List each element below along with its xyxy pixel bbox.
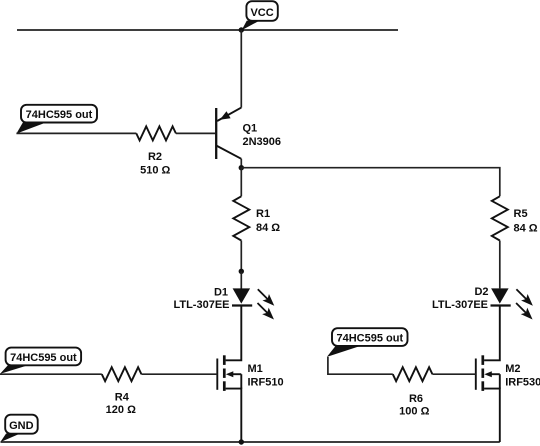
svg-text:510 Ω: 510 Ω	[140, 164, 170, 176]
M1 channel bar (source segment)	[223, 381, 226, 391]
GND net flag pointer	[0, 434, 19, 443]
LED D1 (LTL-307EE)	[232, 286, 278, 323]
svg-text:M2: M2	[505, 363, 520, 375]
junction: node above D1	[239, 269, 244, 274]
net flag box: 74HC595 out (middle)	[332, 328, 408, 346]
net flag pointer: 74HC595 out (left, to R2)	[16, 121, 47, 133]
svg-text:M1: M1	[248, 363, 263, 375]
wire: node to D1 anode	[240, 271, 242, 288]
M2 channel bar (body segment)	[481, 369, 484, 378]
M1 drain wire (from D1 cathode)	[226, 306, 242, 361]
svg-text:IRF530: IRF530	[505, 376, 540, 388]
net flag pointer: 74HC595 out (bottom left, to R4)	[0, 364, 30, 374]
svg-text:GND: GND	[9, 420, 34, 432]
wire: VCC rail down to Q1 emitter	[240, 30, 242, 108]
svg-text:LTL-307EE: LTL-307EE	[173, 299, 229, 311]
Q1 emitter diagonal	[217, 108, 241, 121]
svg-text:100 Ω: 100 Ω	[399, 406, 429, 418]
M1 body line	[229, 373, 241, 375]
svg-text:R6: R6	[409, 393, 423, 405]
M2 channel bar (source segment)	[481, 381, 484, 391]
svg-text:74HC595 out: 74HC595 out	[336, 333, 403, 345]
net flag box: 74HC595 out (bottom left)	[6, 348, 82, 366]
svg-text:R4: R4	[115, 391, 130, 403]
M2 channel bar (drain segment)	[481, 355, 484, 365]
junction: VCC rail / Q1 emitter	[239, 27, 244, 32]
ground rail (bottom horizontal net)	[1, 441, 500, 443]
LED D2 (LTL-307EE)	[491, 286, 537, 323]
M2 drain wire (from D2 cathode)	[484, 306, 500, 361]
D1 cathode bar	[232, 304, 252, 306]
Q1 collector diagonal	[216, 146, 241, 159]
M2 body arrow	[484, 371, 492, 377]
wire: 74HC595 out to R4	[0, 373, 102, 375]
svg-text:R1: R1	[256, 208, 270, 220]
Q1 base bar	[215, 108, 217, 159]
M1 body arrow	[226, 371, 234, 377]
M2 body-source tie	[499, 374, 501, 388]
D1 anode triangle	[233, 288, 251, 303]
svg-text:D1: D1	[214, 286, 228, 298]
M1 body-source tie	[240, 374, 242, 388]
GND net flag box	[5, 415, 38, 434]
Q1 emitter arrow (PNP, points to base)	[220, 111, 231, 120]
net flag pointer: 74HC595 out (middle, to R6)	[327, 346, 359, 357]
wire: R1 to D1 node	[240, 241, 242, 272]
M2 source wire	[484, 389, 500, 442]
resistor R1 (zigzag)	[233, 196, 249, 240]
svg-text:Q1: Q1	[243, 123, 258, 135]
transistor Q1 (PNP 2N3906)	[216, 108, 241, 159]
wire: Q1 collector to node	[240, 159, 242, 168]
wire: collector node down to R1	[240, 168, 242, 197]
net flag box: 74HC595 out (left)	[21, 105, 97, 123]
VCC net flag pointer	[242, 21, 260, 31]
svg-text:74HC595 out: 74HC595 out	[10, 352, 77, 364]
resistor R5 (zigzag)	[492, 196, 508, 240]
svg-text:84 Ω: 84 Ω	[514, 223, 538, 235]
VCC net flag box	[246, 1, 277, 21]
MOSFET M1 (IRF510)	[217, 306, 241, 443]
D2 light arrow 2	[513, 300, 536, 323]
svg-text:VCC: VCC	[250, 7, 273, 19]
D1 light arrow 1	[255, 286, 278, 309]
resistor R2 (zigzag)	[136, 126, 176, 140]
power rail VCC (top horizontal net)	[17, 29, 398, 31]
svg-text:120 Ω: 120 Ω	[106, 404, 136, 416]
svg-text:R2: R2	[148, 151, 162, 163]
D1 light arrow 2	[254, 300, 277, 323]
junction: collector node	[239, 165, 244, 170]
svg-text:74HC595 out: 74HC595 out	[26, 109, 93, 121]
M1 source wire	[226, 389, 242, 442]
D2 light arrow 1	[513, 286, 536, 309]
wire: R6 to M2 gate	[432, 373, 475, 375]
svg-text:LTL-307EE: LTL-307EE	[432, 299, 488, 311]
svg-text:84 Ω: 84 Ω	[256, 222, 280, 234]
M1 channel bar (body segment)	[223, 369, 226, 378]
wire: collector node to right branch (to R5)	[241, 168, 500, 197]
wire: R5 to D2 anode	[499, 241, 501, 289]
junction: M1 source on ground rail	[239, 439, 244, 444]
wire: R2 to Q1 base	[176, 132, 215, 134]
D2 cathode bar	[491, 304, 511, 306]
M2 gate bar	[475, 359, 477, 390]
wire: 74HC595 out down and right to R6	[328, 357, 393, 374]
wire: R4 to M1 gate	[141, 373, 217, 375]
wire: 74HC595 out to R2	[16, 132, 136, 134]
M2 body line	[488, 373, 500, 375]
svg-text:2N3906: 2N3906	[243, 136, 282, 148]
D2 anode triangle	[491, 288, 509, 303]
svg-text:IRF510: IRF510	[248, 376, 284, 388]
resistor R4 (zigzag)	[102, 367, 142, 381]
resistor R6 (zigzag)	[393, 367, 433, 381]
svg-text:R5: R5	[514, 208, 528, 220]
M1 gate bar	[216, 359, 218, 390]
MOSFET M2 (IRF530)	[476, 306, 500, 443]
svg-text:D2: D2	[474, 286, 488, 298]
M1 channel bar (drain segment)	[223, 355, 226, 365]
